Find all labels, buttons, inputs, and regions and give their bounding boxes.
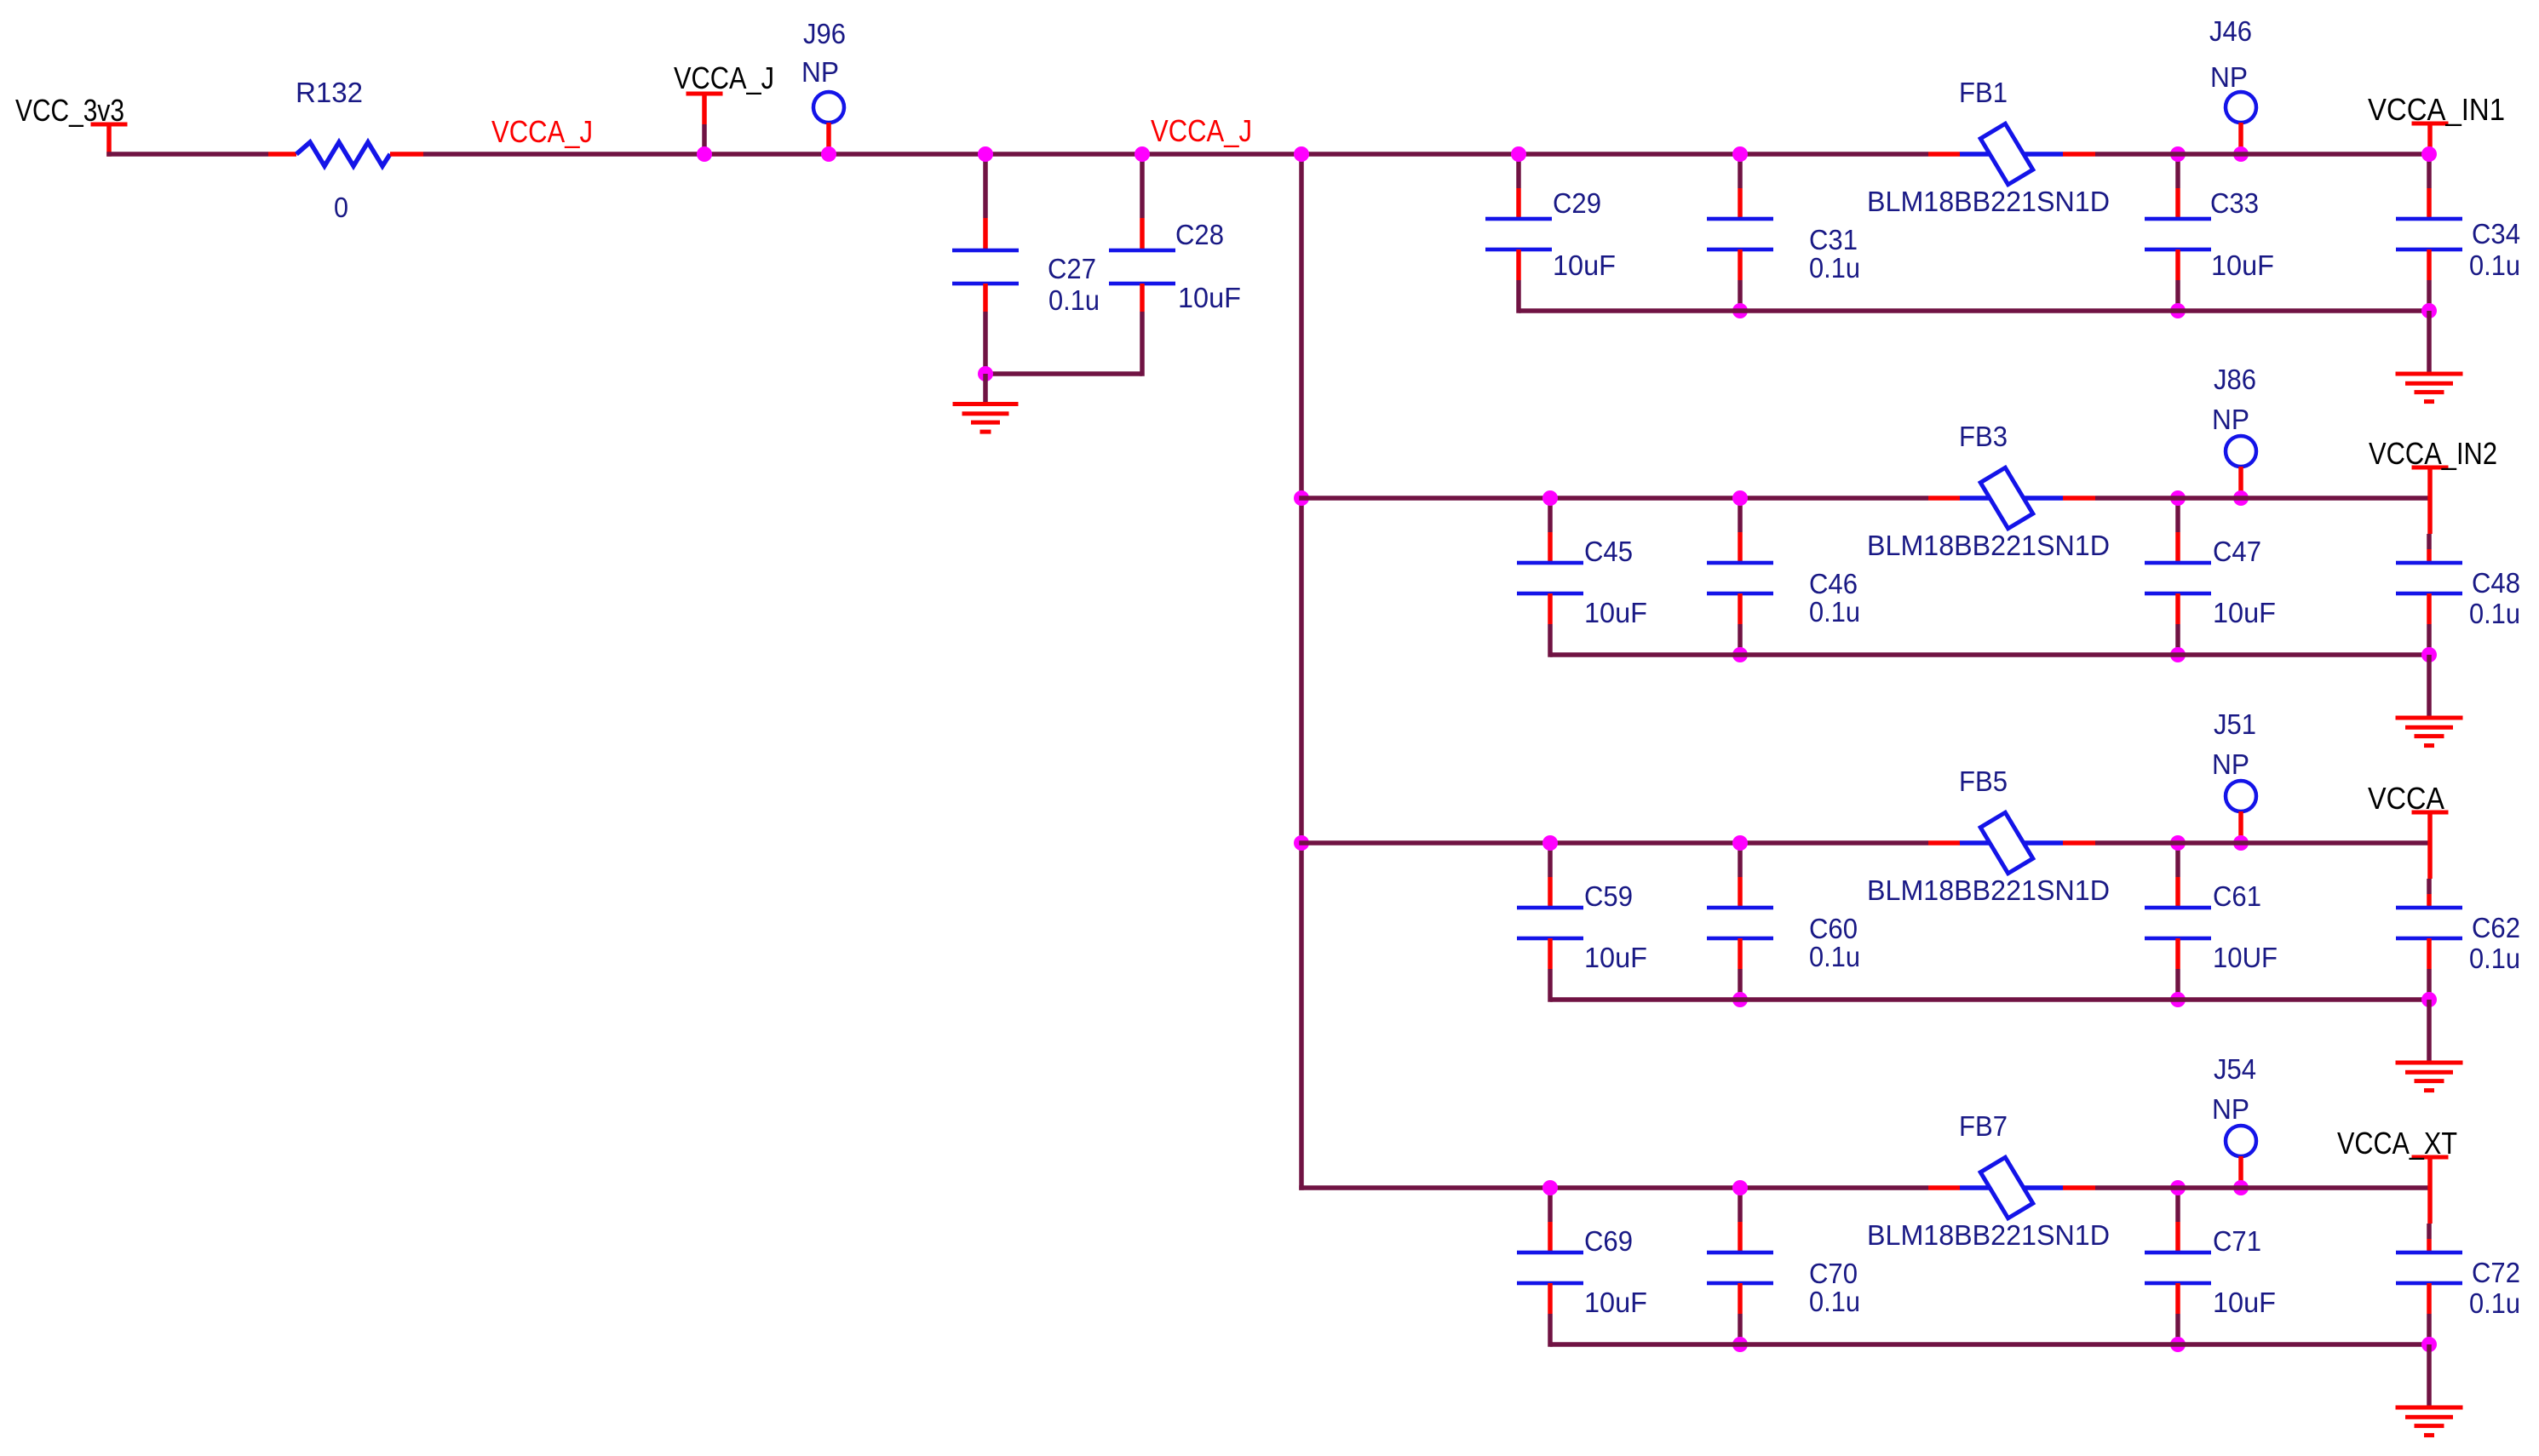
value BLM18BB221SN1D of FB3 bbox=[1867, 530, 2110, 561]
junction bus at row C59 bbox=[1294, 835, 1309, 851]
capacitor C69 bbox=[1517, 1188, 1583, 1347]
value 0.1u of C31 bbox=[1809, 252, 1860, 284]
label FB5 bbox=[1959, 765, 2008, 797]
testpoint J54 (NP) bbox=[2226, 1126, 2256, 1188]
svg-text:C71: C71 bbox=[2213, 1225, 2261, 1257]
label C33 bbox=[2210, 187, 2259, 219]
value 0.1u of C27 bbox=[1048, 284, 1100, 316]
capacitor C70 bbox=[1707, 1188, 1773, 1347]
net label VCCA_XT bbox=[2337, 1126, 2457, 1161]
svg-text:10UF: 10UF bbox=[2213, 942, 2278, 973]
junction C33 bottom bbox=[2170, 303, 2186, 318]
svg-text:C27: C27 bbox=[1048, 253, 1096, 284]
vertical bus wire VCCA_J bbox=[1299, 154, 1304, 1190]
value BLM18BB221SN1D of FB5 bbox=[1867, 874, 2110, 906]
ferrite bead FB7 bbox=[1928, 1157, 2095, 1218]
label C60 bbox=[1809, 913, 1858, 944]
junction C48 bottom bbox=[2421, 647, 2437, 662]
svg-text:NP: NP bbox=[2212, 748, 2249, 780]
capacitor C46 bbox=[1707, 498, 1773, 657]
net name VCCA_J (red, left) bbox=[491, 114, 593, 149]
junction C70 top bbox=[1732, 1180, 1748, 1195]
junction C46 top bbox=[1732, 490, 1748, 506]
rail wire VCCA_XT right of FB bbox=[2095, 1185, 2429, 1190]
junction J51 bbox=[2233, 835, 2249, 851]
svg-text:C60: C60 bbox=[1809, 913, 1858, 944]
svg-text:10uF: 10uF bbox=[2213, 597, 2276, 628]
svg-text:C28: C28 bbox=[1175, 219, 1224, 250]
svg-text:J96: J96 bbox=[803, 18, 846, 49]
net label VCCA bbox=[2368, 781, 2444, 816]
svg-text:10uF: 10uF bbox=[1584, 1287, 1647, 1318]
svg-text:C48: C48 bbox=[2472, 567, 2520, 599]
svg-text:10uF: 10uF bbox=[2211, 249, 2274, 281]
label C62 bbox=[2472, 912, 2520, 943]
rail wire VCCA left of FB bbox=[1299, 840, 1928, 846]
label C46 bbox=[1809, 568, 1858, 599]
capacitor C59 bbox=[1517, 843, 1583, 1002]
svg-text:10uF: 10uF bbox=[1584, 597, 1647, 628]
ferrite bead FB5 bbox=[1928, 812, 2095, 874]
junction C47 bottom bbox=[2170, 647, 2186, 662]
label C47 bbox=[2213, 536, 2261, 567]
svg-text:0.1u: 0.1u bbox=[2469, 1287, 2520, 1319]
svg-text:0.1u: 0.1u bbox=[1048, 284, 1100, 316]
svg-text:VCCA_XT: VCCA_XT bbox=[2337, 1126, 2457, 1161]
junction J86 bbox=[2233, 490, 2249, 506]
junction C61 bottom bbox=[2170, 992, 2186, 1007]
rail wire VCCA_XT left of FB bbox=[1299, 1185, 1928, 1190]
junction J46 bbox=[2233, 146, 2249, 162]
svg-text:C69: C69 bbox=[1584, 1225, 1633, 1257]
svg-text:NP: NP bbox=[2212, 404, 2249, 435]
capacitor C33 bbox=[2145, 154, 2211, 313]
capacitor C31 bbox=[1707, 154, 1773, 313]
label C69 bbox=[1584, 1225, 1633, 1257]
junction C33 top bbox=[2170, 146, 2186, 162]
rail wire VCCA right of FB bbox=[2095, 840, 2429, 846]
resistor R132 bbox=[296, 142, 390, 166]
svg-text:BLM18BB221SN1D: BLM18BB221SN1D bbox=[1867, 874, 2110, 906]
junction VCCA_J flag bbox=[697, 146, 712, 162]
svg-text:10uF: 10uF bbox=[2213, 1287, 2276, 1318]
value 10uF of C47 bbox=[2213, 597, 2276, 628]
svg-text:C29: C29 bbox=[1553, 187, 1601, 219]
svg-text:10uF: 10uF bbox=[1553, 249, 1616, 281]
value 0.1u of C72 bbox=[2469, 1287, 2520, 1319]
junction C60 top bbox=[1732, 835, 1748, 851]
junction C34 top bbox=[2421, 146, 2437, 162]
testpoint J51 (NP) bbox=[2226, 781, 2256, 843]
power flag VCCA_J bbox=[686, 92, 723, 155]
value 0.1u of C70 bbox=[1809, 1286, 1860, 1317]
value BLM18BB221SN1D of FB1 bbox=[1867, 186, 2110, 217]
value 0.1u of C48 bbox=[2469, 598, 2520, 629]
label J51 bbox=[2214, 708, 2256, 740]
svg-text:0.1u: 0.1u bbox=[2469, 598, 2520, 629]
svg-text:0.1u: 0.1u bbox=[1809, 941, 1860, 972]
capacitor C72 bbox=[2396, 1251, 2462, 1344]
value 0.1u of C60 bbox=[1809, 941, 1860, 972]
ground below C27 bbox=[953, 374, 1019, 434]
svg-text:0.1u: 0.1u bbox=[2469, 943, 2520, 974]
power flag VCCA_IN1 bbox=[2412, 122, 2449, 155]
value 10uF of C28 bbox=[1178, 282, 1241, 313]
label C34 bbox=[2472, 218, 2520, 249]
junction C34 bottom bbox=[2421, 303, 2437, 318]
net name VCCA_J (red, at bus) bbox=[1151, 113, 1252, 148]
capacitor C29 bbox=[1485, 154, 1552, 313]
value 10uF of C33 bbox=[2211, 249, 2274, 281]
label NP of J86 bbox=[2212, 404, 2249, 435]
value BLM18BB221SN1D of FB7 bbox=[1867, 1219, 2110, 1251]
value 10UF of C61 bbox=[2213, 942, 2278, 973]
wire R132 to FB1 (net VCCA_J) bbox=[390, 152, 1928, 157]
capacitor C71 bbox=[2145, 1188, 2211, 1347]
junction C27 top bbox=[978, 146, 993, 162]
svg-text:0.1u: 0.1u bbox=[1809, 596, 1860, 628]
power flag VCCA bbox=[2412, 811, 2449, 909]
svg-text:0.1u: 0.1u bbox=[1809, 1286, 1860, 1317]
capacitor C47 bbox=[2145, 498, 2211, 657]
label J96 bbox=[803, 18, 846, 49]
svg-text:C72: C72 bbox=[2472, 1257, 2520, 1288]
label NP of J46 bbox=[2210, 61, 2248, 93]
svg-text:NP: NP bbox=[2210, 61, 2248, 93]
wire C27-C28 bottom bbox=[985, 371, 1142, 376]
capacitor C28 bbox=[1109, 154, 1175, 376]
junction C31 top bbox=[1732, 146, 1748, 162]
bottom wire of VCCA_XT group bbox=[1550, 1342, 2429, 1347]
svg-text:0: 0 bbox=[334, 192, 348, 223]
svg-text:R132: R132 bbox=[296, 77, 363, 108]
junction C29 top bbox=[1511, 146, 1526, 162]
junction C59 top bbox=[1542, 835, 1558, 851]
svg-text:FB3: FB3 bbox=[1959, 421, 2008, 452]
net label VCCA_IN1 bbox=[2368, 92, 2505, 127]
label C72 bbox=[2472, 1257, 2520, 1288]
svg-text:FB5: FB5 bbox=[1959, 765, 2008, 797]
capacitor C62 bbox=[2396, 906, 2462, 1000]
label NP of J96 bbox=[801, 56, 839, 88]
svg-text:J51: J51 bbox=[2214, 708, 2256, 740]
svg-text:C31: C31 bbox=[1809, 224, 1858, 255]
net label VCCA_IN2 bbox=[2369, 436, 2497, 471]
svg-text:C45: C45 bbox=[1584, 536, 1633, 567]
junction C45 top bbox=[1542, 490, 1558, 506]
svg-text:VCCA_IN2: VCCA_IN2 bbox=[2369, 436, 2497, 471]
svg-text:VCCA_IN1: VCCA_IN1 bbox=[2368, 92, 2505, 127]
label C70 bbox=[1809, 1258, 1858, 1289]
junction C70 bottom bbox=[1732, 1337, 1748, 1352]
bottom wire of VCCA_IN1 group bbox=[1519, 308, 2429, 313]
ground below C62 bbox=[2396, 1000, 2463, 1092]
svg-text:J86: J86 bbox=[2214, 364, 2256, 395]
value 10uF of C69 bbox=[1584, 1287, 1647, 1318]
capacitor C60 bbox=[1707, 843, 1773, 1002]
label C28 bbox=[1175, 219, 1224, 250]
svg-text:FB1: FB1 bbox=[1959, 77, 2008, 108]
svg-text:J54: J54 bbox=[2214, 1053, 2256, 1085]
svg-text:0.1u: 0.1u bbox=[1809, 252, 1860, 284]
value 0.1u of C34 bbox=[2469, 249, 2520, 281]
rail wire VCCA_IN1 right of FB bbox=[2095, 152, 2429, 157]
value 10uF of C45 bbox=[1584, 597, 1647, 628]
capacitor C34 bbox=[2396, 154, 2462, 313]
junction C72 bottom bbox=[2421, 1337, 2437, 1352]
junction C69 top bbox=[1542, 1180, 1558, 1195]
junction C71 top bbox=[2170, 1180, 2186, 1195]
label FB3 bbox=[1959, 421, 2008, 452]
svg-text:C47: C47 bbox=[2213, 536, 2261, 567]
junction C27 ground bbox=[978, 366, 993, 381]
label C31 bbox=[1809, 224, 1858, 255]
bottom wire of VCCA_IN2 group bbox=[1550, 652, 2429, 657]
value 0 of R132 bbox=[334, 192, 348, 223]
capacitor C48 bbox=[2396, 561, 2462, 655]
value 10uF of C29 bbox=[1553, 249, 1616, 281]
svg-text:VCC_3v3: VCC_3v3 bbox=[15, 93, 124, 128]
svg-text:VCCA_J: VCCA_J bbox=[674, 60, 774, 95]
svg-text:VCCA_J: VCCA_J bbox=[1151, 113, 1252, 148]
junction bus top bbox=[1294, 146, 1309, 162]
svg-text:C59: C59 bbox=[1584, 880, 1633, 912]
testpoint J86 (NP) bbox=[2226, 436, 2256, 498]
svg-text:10uF: 10uF bbox=[1178, 282, 1241, 313]
rail wire VCCA_IN2 right of FB bbox=[2095, 496, 2429, 501]
label C48 bbox=[2472, 567, 2520, 599]
svg-text:C33: C33 bbox=[2210, 187, 2259, 219]
label C61 bbox=[2213, 880, 2261, 912]
svg-text:C34: C34 bbox=[2472, 218, 2520, 249]
svg-text:C61: C61 bbox=[2213, 880, 2261, 912]
label J54 bbox=[2214, 1053, 2256, 1085]
svg-text:BLM18BB221SN1D: BLM18BB221SN1D bbox=[1867, 1219, 2110, 1251]
junction bus at row C45 bbox=[1294, 490, 1309, 506]
value 10uF of C71 bbox=[2213, 1287, 2276, 1318]
svg-text:VCCA: VCCA bbox=[2368, 781, 2444, 816]
svg-text:VCCA_J: VCCA_J bbox=[491, 114, 593, 149]
net label VCCA_J (black) bbox=[674, 60, 774, 95]
rail wire VCCA_IN2 left of FB bbox=[1299, 496, 1928, 501]
junction J96 bbox=[821, 146, 836, 162]
label C59 bbox=[1584, 880, 1633, 912]
svg-text:10uF: 10uF bbox=[1584, 942, 1647, 973]
label FB7 bbox=[1959, 1110, 2008, 1142]
power flag VCC_3v3 bbox=[91, 123, 128, 157]
label J46 bbox=[2209, 15, 2252, 47]
label FB1 bbox=[1959, 77, 2008, 108]
label C71 bbox=[2213, 1225, 2261, 1257]
junction C71 bottom bbox=[2170, 1337, 2186, 1352]
label J86 bbox=[2214, 364, 2256, 395]
ferrite bead FB3 bbox=[1928, 467, 2095, 529]
ferrite bead FB1 bbox=[1928, 123, 2095, 185]
junction C28 top bbox=[1135, 146, 1150, 162]
junction C46 bottom bbox=[1732, 647, 1748, 662]
ground below C34 bbox=[2396, 311, 2463, 404]
label C29 bbox=[1553, 187, 1601, 219]
svg-text:C62: C62 bbox=[2472, 912, 2520, 943]
capacitor C61 bbox=[2145, 843, 2211, 1002]
label C27 bbox=[1048, 253, 1096, 284]
svg-text:0.1u: 0.1u bbox=[2469, 249, 2520, 281]
svg-text:BLM18BB221SN1D: BLM18BB221SN1D bbox=[1867, 186, 2110, 217]
svg-text:C70: C70 bbox=[1809, 1258, 1858, 1289]
testpoint J46 (NP) bbox=[2226, 92, 2256, 154]
svg-text:BLM18BB221SN1D: BLM18BB221SN1D bbox=[1867, 530, 2110, 561]
wire VCC_3v3 to R132 bbox=[106, 152, 296, 157]
label NP of J54 bbox=[2212, 1093, 2249, 1125]
value 0.1u of C62 bbox=[2469, 943, 2520, 974]
svg-text:J46: J46 bbox=[2209, 15, 2252, 47]
power flag VCCA_IN2 bbox=[2412, 466, 2449, 564]
junction C31 bottom bbox=[1732, 303, 1748, 318]
testpoint J96 (NP) bbox=[813, 92, 844, 154]
bottom wire of VCCA group bbox=[1550, 997, 2429, 1002]
power flag VCCA_XT bbox=[2412, 1155, 2449, 1253]
value 10uF of C59 bbox=[1584, 942, 1647, 973]
junction C47 top bbox=[2170, 490, 2186, 506]
ground below C48 bbox=[2396, 655, 2463, 748]
svg-text:NP: NP bbox=[801, 56, 839, 88]
junction C62 bottom bbox=[2421, 992, 2437, 1007]
capacitor C27 bbox=[952, 154, 1019, 376]
label C45 bbox=[1584, 536, 1633, 567]
label NP of J51 bbox=[2212, 748, 2249, 780]
junction C61 top bbox=[2170, 835, 2186, 851]
svg-text:NP: NP bbox=[2212, 1093, 2249, 1125]
label R132 bbox=[296, 77, 363, 108]
net label VCC_3v3 bbox=[15, 93, 124, 128]
junction J54 bbox=[2233, 1180, 2249, 1195]
junction bus at row C69 bbox=[0, 0, 1, 1]
svg-text:FB7: FB7 bbox=[1959, 1110, 2008, 1142]
ground below C72 bbox=[2396, 1344, 2463, 1437]
capacitor C45 bbox=[1517, 498, 1583, 657]
value 0.1u of C46 bbox=[1809, 596, 1860, 628]
junction C60 bottom bbox=[1732, 992, 1748, 1007]
svg-text:C46: C46 bbox=[1809, 568, 1858, 599]
